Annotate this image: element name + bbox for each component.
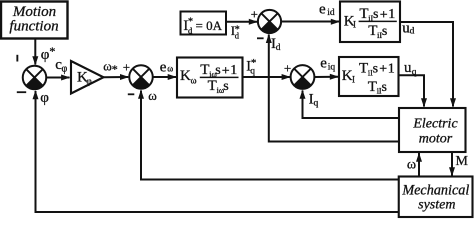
svg-text:+: +	[380, 8, 388, 23]
wire c_phi from S1 to gain K_phi	[46, 57, 70, 81]
minus sign at S3 bottom input	[257, 37, 264, 39]
block q-axis current PI controller K_I	[339, 57, 399, 96]
label Id feedback at S3	[271, 36, 281, 53]
svg-text:Mechanical: Mechanical	[401, 183, 469, 199]
svg-text:+: +	[379, 62, 387, 77]
svg-text:*: *	[49, 44, 55, 58]
wire phi* from Motion function to summer S1	[32, 39, 55, 65]
svg-text:s: s	[382, 80, 387, 95]
svg-text:d: d	[410, 27, 415, 37]
wire u_q from q controller to Electric motor	[399, 60, 428, 108]
svg-text:iq: iq	[328, 63, 336, 73]
svg-text:q: q	[314, 99, 319, 109]
svg-text:q: q	[412, 68, 417, 78]
svg-text:*: *	[112, 62, 118, 76]
svg-text:s: s	[373, 61, 378, 76]
node plus tick at S1 top input	[16, 55, 18, 62]
svg-text:e: e	[320, 56, 327, 72]
wire e_iq from S4 to q-axis current controller	[314, 56, 339, 80]
svg-text:ω: ω	[407, 157, 416, 172]
svg-text:q: q	[250, 67, 255, 77]
wire omega feedback from Mechanical system to S2	[138, 90, 399, 180]
svg-text:I: I	[352, 75, 355, 85]
svg-text:T: T	[208, 78, 217, 94]
wire Id* from reference block to summer S3	[226, 19, 258, 41]
svg-text:d: d	[276, 43, 281, 53]
svg-text:T: T	[368, 79, 377, 95]
svg-text:T: T	[368, 23, 377, 39]
svg-text:Electric: Electric	[412, 116, 458, 131]
wire omega from Mechanical system up into Electric motor	[407, 153, 422, 177]
wire Iq* from K_omega block to summer S4	[243, 57, 291, 80]
wire omega* from K_phi to summer S2	[103, 59, 129, 80]
svg-text:+: +	[222, 64, 230, 79]
block Id* = 0A reference	[181, 12, 227, 36]
svg-text:+: +	[123, 60, 130, 75]
svg-text:Motion: Motion	[12, 4, 56, 20]
svg-text:+: +	[251, 7, 258, 22]
svg-text:1: 1	[388, 61, 395, 76]
svg-text:s: s	[382, 24, 387, 39]
svg-text:ω: ω	[167, 64, 173, 74]
svg-text:id: id	[327, 8, 335, 18]
svg-text:1: 1	[388, 7, 395, 22]
wire u_d from d controller to Electric motor	[400, 21, 456, 108]
block Electric motor	[399, 108, 466, 152]
block Motion function	[1, 2, 68, 39]
gain triangle K_phi	[71, 61, 104, 94]
svg-text:system: system	[418, 198, 455, 213]
svg-text:φ: φ	[40, 90, 49, 106]
block speed PI controller K_omega	[177, 58, 243, 98]
svg-text:T: T	[200, 62, 209, 78]
wire phi feedback from Mechanical system to S1	[33, 90, 399, 212]
svg-text:s: s	[223, 79, 228, 94]
svg-text:K: K	[180, 68, 191, 84]
wire M from Electric motor to Mechanical system	[449, 152, 469, 176]
svg-text:+: +	[284, 60, 291, 75]
svg-text:T: T	[359, 60, 368, 76]
svg-text:1: 1	[230, 63, 237, 78]
svg-text:s: s	[215, 63, 220, 78]
summer S3 (d-current comparison)	[258, 10, 281, 33]
minus sign at S1 bottom input	[17, 91, 26, 93]
svg-text:= 0A: = 0A	[196, 18, 223, 33]
svg-text:motor: motor	[419, 131, 453, 146]
svg-text:e: e	[319, 2, 326, 18]
wire e_omega from S2 to speed controller	[153, 59, 177, 80]
wire Iq feedback from Electric motor to S4	[300, 90, 400, 118]
svg-text:d: d	[235, 31, 240, 41]
svg-text:ω: ω	[148, 88, 157, 103]
svg-text:e: e	[160, 59, 167, 75]
wire e_id from S3 to d-axis current controller	[281, 2, 340, 25]
svg-text:M: M	[456, 154, 469, 169]
block Mechanical system	[399, 177, 473, 218]
svg-text:s: s	[373, 7, 378, 22]
svg-text:φ: φ	[86, 77, 92, 87]
wire Id feedback from Electric motor to S3	[266, 34, 399, 142]
block d-axis current PI controller K_I	[340, 2, 400, 43]
svg-text:I: I	[353, 20, 356, 30]
summer S2 (speed comparison)	[129, 65, 153, 89]
summer S1 (position comparison)	[23, 66, 47, 90]
minus sign at S2 bottom input	[128, 93, 135, 95]
svg-text:φ: φ	[62, 63, 68, 74]
label Iq feedback at S4	[309, 91, 319, 108]
summer S4 (q-current comparison)	[291, 65, 315, 89]
svg-text:ω: ω	[191, 75, 197, 85]
svg-text:function: function	[9, 19, 58, 35]
svg-text:T: T	[359, 6, 368, 22]
